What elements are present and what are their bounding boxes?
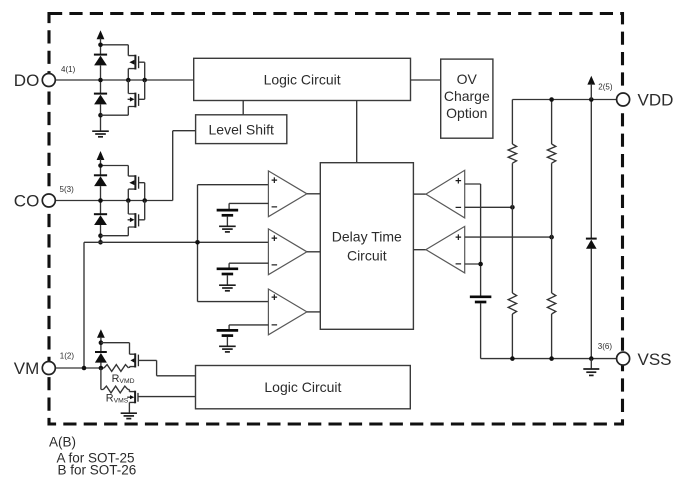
wire U5 plus input to resistor rail 2 [465, 236, 552, 238]
svg-text:2(5): 2(5) [598, 82, 613, 91]
wire DO clamp top node to PMOS drain [101, 44, 129, 46]
wire comparator input bus vertical [197, 185, 199, 302]
svg-text:+: + [271, 233, 277, 245]
IC boundary dashed box [49, 14, 623, 425]
block Logic Circuit (top) [194, 58, 411, 100]
wire U2 minus input to reference [229, 263, 268, 268]
op-amp U3 (third comparator) [268, 289, 307, 335]
node CO chain to sense rail [98, 240, 103, 245]
svg-text:−: − [271, 319, 277, 331]
ground U2 reference [219, 285, 236, 291]
svg-text:+: + [455, 175, 461, 187]
op-amp U1 (overcharge comparator) [268, 171, 307, 217]
svg-text:Circuit: Circuit [347, 248, 387, 264]
node DO lower [98, 113, 103, 118]
wire Logic Circuit to OV Charge Option [411, 79, 441, 81]
ground VSS [583, 369, 599, 375]
wire U3 minus input to reference [229, 325, 268, 330]
wire reference rail vertical [480, 184, 482, 296]
ground U3 reference [219, 346, 236, 352]
wire Logic Circuit to Delay Time Circuit [356, 101, 358, 163]
wire DO net [55, 79, 193, 81]
svg-text:Delay Time: Delay Time [332, 228, 402, 244]
diode rail vertical (VDD to VSS) [590, 100, 592, 359]
wire D4 anode down to sense rail [100, 225, 102, 242]
node sense rail / input bus [195, 240, 200, 245]
ground DO clamp [92, 131, 109, 137]
resistor rail 2 lower segment [551, 314, 553, 359]
wire Delay Time Circuit to U5 output [413, 249, 426, 251]
op-amp U2 (overdischarge comparator) [268, 229, 307, 275]
node rail 2 on VDD [549, 97, 554, 102]
node VM clamp top [99, 340, 104, 345]
wire VDD rail [512, 99, 616, 101]
svg-text:Logic Circuit: Logic Circuit [264, 72, 341, 88]
resistor R2 [547, 144, 555, 163]
svg-text:CO: CO [14, 192, 40, 211]
power arrow above VM clamp [97, 329, 105, 351]
block OV Charge Option [441, 59, 493, 138]
block Level Shift [196, 115, 287, 144]
node sense rail on VM net [82, 366, 87, 371]
wire U1 minus input to reference [229, 203, 268, 209]
resistor R1 [508, 144, 516, 163]
wire VSS ground stem [590, 359, 592, 369]
wire D3 anode to CO net [100, 186, 102, 214]
diode D4 CO lower clamp [94, 214, 107, 225]
node rail 1 on VSS [510, 356, 515, 361]
node U4 minus on rail 1 [510, 205, 515, 210]
resistor R3 [508, 293, 516, 314]
svg-text:B for SOT-26: B for SOT-26 [58, 463, 137, 478]
svg-text:+: + [271, 175, 277, 187]
svg-text:OV: OV [457, 71, 478, 87]
wire U4 plus input [465, 183, 481, 185]
svg-text:VDD: VDD [638, 91, 674, 110]
node VM net / clamp [99, 366, 104, 371]
note package variants [49, 435, 136, 478]
diode D6 VM clamp [95, 352, 107, 363]
svg-text:5(3): 5(3) [60, 185, 75, 194]
resistor rail 1 middle segment [511, 163, 513, 293]
wire U4 minus input to resistor rail 1 [465, 206, 513, 208]
wire U1 output to Delay Time Circuit [307, 193, 320, 195]
node diode rail on VDD [589, 97, 594, 102]
wire input bus to comparator 3 plus [198, 301, 269, 303]
svg-text:A(B): A(B) [49, 435, 76, 450]
svg-text:−: − [455, 259, 461, 271]
svg-text:VM: VM [14, 359, 40, 378]
wire U5 minus input to reference rail [465, 263, 481, 265]
node DO clamp top [98, 43, 103, 48]
power arrow VDD [587, 76, 595, 100]
resistor R4 [547, 293, 555, 314]
node CO lower [98, 233, 103, 238]
node Q1 source on DO net [126, 78, 131, 83]
svg-text:Option: Option [446, 105, 487, 121]
node CO net / clamp chain [98, 198, 103, 203]
wire D6 anode to VM net [100, 362, 102, 368]
svg-text:4(1): 4(1) [61, 65, 76, 74]
ground Q6 source [121, 413, 137, 418]
transistor Q1 (DO pull-up FET) [128, 45, 144, 80]
pin DO [14, 65, 76, 90]
wire U2 output to Delay Time Circuit [307, 251, 320, 253]
wire D1 anode to DO net [100, 65, 102, 93]
transistor Q6 (VM lower FET) [127, 390, 195, 413]
wire sense rail down to VM net [83, 242, 85, 368]
diode D1 DO upper clamp [94, 55, 107, 66]
wire U3 output to Delay Time Circuit [307, 311, 320, 313]
wire VM top node to Q5 drain [101, 342, 130, 344]
resistor rail 2 middle segment [551, 163, 553, 293]
pin VDD [598, 82, 673, 109]
transistor Q2 (DO pull-down FET) [101, 80, 145, 115]
node Q1 gate on DO net [142, 78, 147, 83]
svg-text:3(6): 3(6) [598, 342, 613, 351]
node CO clamp top [98, 163, 103, 168]
ground U1 reference [219, 226, 236, 232]
wire VM net down to RVMS [101, 368, 103, 390]
wire V3 to ground [226, 337, 228, 346]
battery reference V4 [470, 297, 492, 302]
power arrow above CO clamp [97, 151, 105, 175]
svg-text:−: − [455, 202, 461, 214]
node Q3 source on CO net [126, 198, 131, 203]
wire CO clamp top node to PMOS drain [101, 165, 129, 167]
transistor Q4 (CO pull-down FET) [101, 201, 145, 236]
node U5 minus on reference rail [478, 262, 483, 267]
svg-text:+: + [455, 232, 461, 244]
wire Logic Circuit to Level Shift [242, 101, 244, 115]
battery reference V2 [217, 269, 239, 274]
svg-text:Level Shift: Level Shift [209, 121, 274, 137]
node rail 2 on VSS [549, 356, 554, 361]
wire V1 to ground [226, 217, 228, 226]
op-amp U4 (right upper comparator) [426, 170, 465, 218]
block Logic Circuit (bottom) [196, 366, 411, 409]
svg-text:DO: DO [14, 71, 40, 90]
svg-text:VSS: VSS [638, 350, 672, 369]
resistor RVMD [104, 365, 129, 372]
wire VM net [55, 367, 104, 369]
wire D2 anode to ground node [100, 104, 102, 130]
wire CO net [55, 200, 172, 202]
svg-text:−: − [271, 202, 277, 214]
svg-text:+: + [271, 292, 277, 304]
power arrow above DO clamp [97, 30, 105, 54]
diode D5 (VDD-VSS clamp) [586, 239, 597, 249]
svg-text:−: − [271, 259, 277, 271]
battery reference V1 [217, 210, 239, 215]
resistor rail 2 upper segment [551, 100, 553, 145]
wire Level Shift to CO net [173, 131, 196, 201]
battery reference V3 [217, 330, 239, 335]
pin VM [14, 351, 75, 378]
transistor Q3 (CO pull-up FET) [128, 166, 144, 201]
node DO net / clamp chain [98, 78, 103, 83]
node diode rail on VSS [589, 356, 594, 361]
pin VSS [598, 342, 672, 369]
transistor Q5 (VM upper FET) [130, 343, 196, 376]
block Delay Time Circuit [320, 163, 413, 330]
svg-text:Logic Circuit: Logic Circuit [264, 379, 341, 395]
pin CO [14, 185, 74, 211]
svg-text:1(2): 1(2) [60, 351, 75, 360]
diode D3 CO upper clamp [94, 175, 107, 186]
resistor RVMS [103, 386, 128, 393]
wire input bus to comparator 1 plus [198, 184, 269, 186]
wire Delay Time Circuit to U4 output [413, 193, 426, 195]
wire VSS rail [481, 358, 617, 360]
wire V2 to ground [226, 275, 228, 285]
resistor rail 1 upper segment [511, 100, 513, 145]
svg-text:Charge: Charge [444, 88, 490, 104]
wire sense rail horizontal to comparator inputs [84, 241, 268, 243]
resistor rail 1 lower segment [511, 314, 513, 359]
op-amp U5 (right lower comparator) [426, 226, 465, 273]
node U5 plus on rail 2 [549, 235, 554, 240]
wire V4 to VSS rail [480, 303, 482, 358]
diode D2 DO lower clamp [94, 94, 107, 105]
node Q3 gate on CO net [142, 198, 147, 203]
